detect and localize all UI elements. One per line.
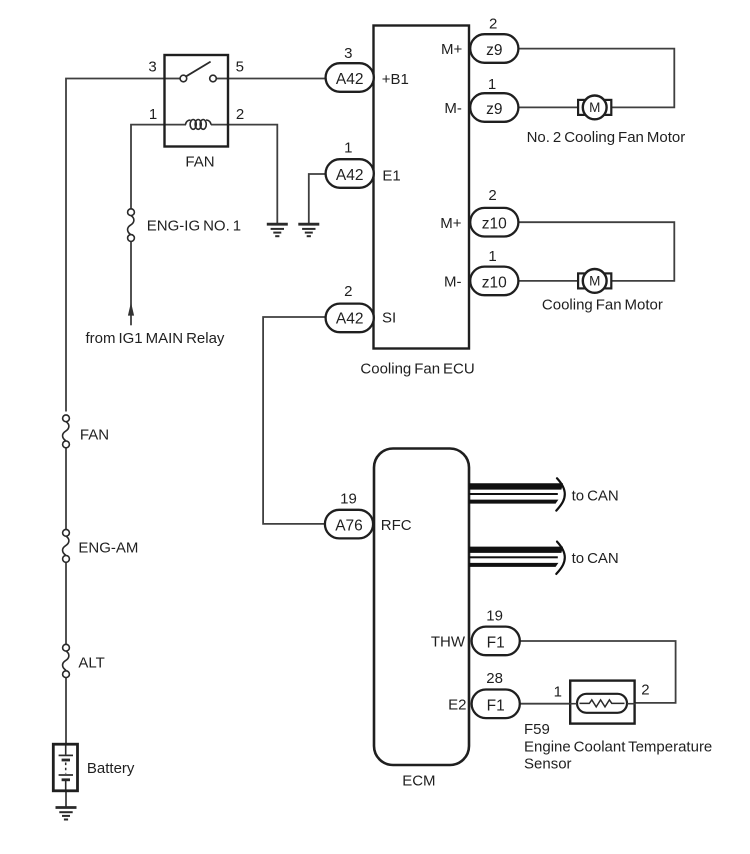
svg-text:2: 2: [344, 283, 352, 300]
svg-text:No. 2 Cooling Fan Motor: No. 2 Cooling Fan Motor: [527, 129, 686, 146]
svg-text:+B1: +B1: [382, 71, 409, 88]
svg-text:Sensor: Sensor: [524, 756, 572, 773]
svg-text:A42: A42: [336, 310, 364, 327]
svg-text:2: 2: [641, 682, 649, 699]
svg-text:M-: M-: [444, 274, 462, 291]
svg-text:M+: M+: [440, 215, 461, 232]
svg-text:1: 1: [149, 106, 157, 123]
svg-text:19: 19: [486, 608, 503, 625]
svg-text:M: M: [589, 100, 600, 115]
svg-text:F59: F59: [524, 721, 550, 738]
svg-text:A42: A42: [336, 167, 364, 184]
svg-text:2: 2: [488, 187, 496, 204]
svg-text:M+: M+: [441, 41, 462, 58]
svg-text:z9: z9: [486, 101, 502, 118]
svg-text:from IG1 MAIN Relay: from IG1 MAIN Relay: [86, 330, 225, 347]
svg-text:F1: F1: [487, 697, 505, 714]
svg-text:RFC: RFC: [381, 517, 412, 534]
svg-text:3: 3: [148, 58, 156, 75]
svg-text:28: 28: [486, 670, 503, 687]
svg-text:Cooling Fan Motor: Cooling Fan Motor: [542, 297, 663, 314]
svg-text:ENG-AM: ENG-AM: [78, 540, 138, 557]
svg-text:to CAN: to CAN: [572, 550, 619, 567]
svg-text:z9: z9: [486, 42, 502, 59]
svg-text:19: 19: [340, 490, 357, 507]
svg-text:z10: z10: [482, 274, 507, 291]
svg-text:5: 5: [236, 58, 244, 75]
svg-text:FAN: FAN: [80, 427, 109, 444]
svg-text:ALT: ALT: [78, 654, 104, 671]
svg-text:M-: M-: [444, 100, 462, 117]
svg-text:Battery: Battery: [87, 760, 135, 777]
svg-text:z10: z10: [482, 216, 507, 233]
svg-text:Cooling Fan ECU: Cooling Fan ECU: [360, 360, 474, 377]
svg-text:A42: A42: [336, 71, 364, 88]
svg-text:Engine Coolant Temperature: Engine Coolant Temperature: [524, 738, 712, 755]
svg-text:M: M: [589, 274, 600, 289]
svg-text:SI: SI: [382, 310, 396, 327]
svg-text:1: 1: [488, 248, 496, 265]
svg-text:2: 2: [236, 106, 244, 123]
svg-text:ECM: ECM: [402, 772, 435, 789]
svg-text:ENG-IG NO. 1: ENG-IG NO. 1: [147, 218, 241, 235]
svg-text:F1: F1: [487, 634, 505, 651]
svg-text:1: 1: [488, 76, 496, 93]
svg-text:1: 1: [344, 140, 352, 157]
svg-text:E2: E2: [448, 697, 466, 714]
svg-text:FAN: FAN: [185, 154, 214, 171]
svg-text:1: 1: [554, 683, 562, 700]
svg-text:2: 2: [489, 16, 497, 33]
svg-text:A76: A76: [335, 518, 363, 535]
svg-text:THW: THW: [431, 634, 466, 651]
svg-text:E1: E1: [382, 168, 400, 185]
svg-text:3: 3: [344, 45, 352, 62]
svg-text:to CAN: to CAN: [572, 488, 619, 505]
